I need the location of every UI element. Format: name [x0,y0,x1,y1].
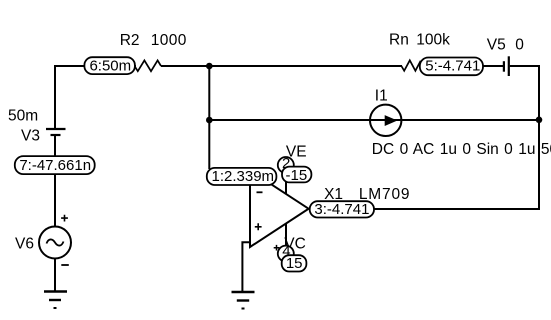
svg-text:1000: 1000 [151,32,187,49]
wire: VE supply to op-amp top edge [285,170,287,195]
node 1 voltage label box [207,168,277,185]
supply source VE circle [278,157,294,173]
battery V3 short plate [51,134,61,136]
battery V5 long plate [508,56,510,76]
svg-text:I1: I1 [375,88,388,105]
node 6 voltage label box [84,57,134,74]
battery V3 long plate [46,128,66,130]
svg-text:6:50m: 6:50m [89,58,131,75]
svg-text:5:-4.741: 5:-4.741 [425,58,480,75]
wire: op-amp bottom edge to VC supply [285,224,287,248]
source V6 circle [39,227,71,259]
op-amp X1 triangle [250,171,309,248]
svg-text:Rn: Rn [389,32,409,49]
wire: top rail R2 to Rn [161,65,402,67]
wire: op-amp non-inverting input to ground [242,242,250,292]
resistor R2 zigzag [135,60,162,71]
current source I1 circle [370,105,401,136]
svg-text:100k: 100k [416,32,450,49]
svg-text:V5: V5 [487,36,506,53]
source V6 plus mark [61,215,68,222]
wire: middle horizontal through I1 [209,119,539,121]
svg-text:15: 15 [286,255,303,272]
resistor Rn zigzag [401,60,422,71]
wire: node 6/1 vertical branch [208,66,210,169]
svg-text:7:-47.661n: 7:-47.661n [19,157,91,174]
wire: V3 battery to V6 source (passes behind node-7 label) [54,135,56,227]
source V6 minus mark [61,264,69,266]
svg-text:V6: V6 [15,236,34,253]
ground below V6 [44,290,67,292]
supply source VC plus mark [274,245,280,251]
current source I1 arrow [385,115,398,126]
wire: V5 battery to right rail corner [510,65,540,67]
op-amp non-inverting input plus mark [255,223,262,230]
op-amp inverting input minus mark [257,191,263,193]
node 7 voltage label box [15,156,95,174]
junction node at right rail y=120 [536,117,543,124]
svg-text:3:-4.741: 3:-4.741 [314,201,369,218]
svg-text:R2: R2 [120,32,140,49]
supply source VC value label box [282,255,307,271]
svg-text:-15: -15 [286,167,308,184]
wire: op-amp output to right rail [371,208,540,210]
node 3 voltage label box [310,201,374,217]
svg-text:V3: V3 [21,128,40,145]
wire: V6 source to ground [54,258,56,291]
battery V5 short plate [503,61,505,71]
wire: Rn label to V5 battery [421,65,504,67]
wire: right vertical rail [538,65,540,210]
wire: top rail left segment to R2 [54,65,136,67]
junction node at top rail x=209 [206,63,213,70]
source V6 sine wave [47,239,64,245]
svg-text:1:2.339m: 1:2.339m [212,168,275,185]
wire: left vertical from top rail to V3 battery [54,66,56,129]
svg-text:50m: 50m [8,108,38,125]
node 5 voltage label box [420,58,483,76]
junction node at middle rail x=209 [206,117,213,124]
svg-text:DC 0 AC 1u 0 Sin 0 1u 50: DC 0 AC 1u 0 Sin 0 1u 50 [372,141,551,158]
svg-text:0: 0 [515,36,524,53]
supply source VC circle [278,246,294,262]
supply source VE value label box [282,167,311,183]
ground below op-amp non-inverting input [232,291,255,293]
